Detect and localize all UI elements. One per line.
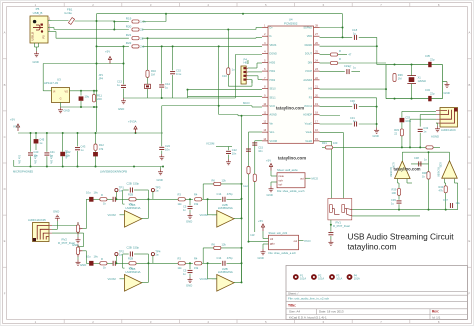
svg-text:VCOM: VCOM: [270, 140, 278, 143]
junction gnd bus tap r1: [133, 166, 135, 168]
wire power rail: [18, 132, 163, 134]
wire pin19 wire: [320, 106, 377, 108]
svg-text:X1: X1: [418, 76, 422, 80]
wire u2b out up: [449, 152, 451, 161]
svg-text:R3: R3: [178, 193, 182, 197]
svg-text:VoutL: VoutL: [306, 131, 313, 134]
ground C24 GND: [159, 154, 164, 160]
svg-text:Sheet: usb_ctrl2: Sheet: usb_ctrl2: [269, 231, 288, 235]
svg-text:VCO: VCO: [270, 105, 275, 108]
svg-text:C43: C43: [81, 145, 86, 149]
ground pot2 GND: [76, 260, 87, 268]
wire D+ wire: [52, 28, 263, 30]
wire main A a: [125, 198, 129, 200]
svg-text:VccpC: VccpC: [305, 122, 313, 125]
resistor R38: [427, 172, 430, 179]
junction out B join: [241, 281, 243, 283]
svg-text:AGND3: AGND3: [303, 79, 312, 82]
svg-text:GND: GND: [80, 263, 86, 267]
junction hp j1: [376, 106, 378, 108]
svg-text:D-: D-: [270, 35, 273, 38]
op-amp U A1: [125, 203, 142, 227]
svg-text:GND: GND: [186, 283, 192, 287]
wire cap2 top lead: [62, 133, 64, 152]
ground stage A GND: [186, 213, 193, 224]
svg-text:RC4580: RC4580: [436, 167, 440, 177]
wire bottom hp rail: [352, 209, 458, 211]
svg-text:VDD: VDD: [307, 35, 312, 38]
svg-text:1u: 1u: [353, 31, 357, 35]
capacitor C28: [328, 233, 333, 235]
junction p11 mid: [241, 198, 243, 200]
svg-text:JP1: JP1: [99, 73, 104, 77]
svg-text:GND: GND: [118, 107, 124, 111]
resonator Y1: [145, 84, 151, 88]
svg-text:C14: C14: [165, 82, 170, 86]
svg-text:HID: HID: [244, 61, 249, 65]
capacitor C42: [60, 152, 65, 156]
wire main B e: [208, 262, 222, 264]
svg-text:101A: 101A: [300, 277, 306, 281]
svg-text:HID2: HID2: [270, 79, 276, 82]
wire main A f: [227, 198, 242, 200]
junction xcol1 top: [123, 45, 125, 47]
test point TP A2: [151, 186, 161, 193]
wire main B f: [227, 262, 242, 264]
junction tpA1 d: [115, 198, 117, 200]
svg-text:R43: R43: [439, 185, 444, 189]
wire cap0 top lead: [30, 133, 32, 152]
capacitor C46: [93, 152, 98, 156]
crystal loop wires: [386, 65, 447, 99]
svg-text:HID0: HID0: [270, 61, 276, 64]
potentiometer RV2B: [76, 245, 82, 257]
svg-text:USB_B: USB_B: [33, 11, 43, 15]
svg-text:+5V: +5V: [258, 219, 263, 223]
wire VDD vertical right: [342, 14, 344, 38]
op-amp U2A: [391, 161, 410, 179]
capacitor C23: [347, 69, 349, 74]
junction pot gnd tap: [330, 224, 332, 226]
svg-text:100: 100: [392, 191, 397, 195]
svg-text:out: out: [294, 240, 298, 243]
svg-text:InR: InR: [251, 233, 255, 237]
junction pullup bottom: [113, 29, 115, 31]
svg-text:C24: C24: [165, 144, 170, 148]
wire sheet2 gnd: [263, 244, 269, 249]
svg-text:HID1: HID1: [270, 70, 276, 73]
junction VDD tap2: [242, 13, 244, 15]
junction sel0 join: [187, 89, 189, 91]
svg-text:DIN: DIN: [308, 61, 313, 64]
junction xl d3: [394, 98, 396, 100]
svg-text:R16: R16: [151, 69, 156, 73]
wire fb B wire: [123, 254, 149, 282]
wire gnd bus left drop: [13, 160, 15, 167]
svg-text:+3V3A: +3V3A: [128, 120, 137, 124]
wire pin17 wire: [320, 123, 377, 125]
wire res col: [147, 38, 149, 70]
wire VBUS row: [97, 45, 262, 47]
junction pullup top: [113, 21, 115, 23]
resistor R chain L: [100, 198, 107, 201]
junction rail tap 0: [30, 132, 32, 134]
svg-text:C: C: [4, 135, 6, 139]
op-amp U B2: [217, 267, 234, 291]
wire r38 down: [428, 179, 430, 210]
junction mco cross: [218, 105, 220, 107]
svg-text:1u: 1u: [165, 85, 168, 89]
wire tpB2 stub: [152, 256, 154, 264]
svg-text:VO: VO: [65, 90, 69, 93]
resistor R B2: [129, 262, 136, 265]
ground sheet2 GND: [258, 249, 266, 260]
svg-text:PCM2902: PCM2902: [284, 21, 298, 25]
wire c24 bot: [161, 151, 163, 154]
svg-text:101A: 101A: [318, 277, 324, 281]
svg-text:VCOM: VCOM: [108, 213, 117, 217]
wire pot1 gnd: [77, 235, 79, 237]
svg-text:2.2: 2.2: [140, 45, 145, 49]
svg-text:VCOM: VCOM: [206, 142, 215, 146]
wire cap2 bottom lead: [62, 156, 64, 166]
svg-text:470p: 470p: [227, 256, 233, 260]
wire ground bus: [14, 166, 163, 168]
svg-text:A: A: [468, 31, 470, 35]
svg-text:LM4562NA: LM4562NA: [126, 206, 141, 210]
svg-text:USB Audio Streaming Circuit: USB Audio Streaming Circuit: [348, 231, 455, 241]
svg-text:12k: 12k: [222, 243, 227, 247]
svg-text:SSPND: SSPND: [303, 27, 312, 30]
resistor R22: [126, 41, 145, 48]
wire VDD vertical left: [96, 14, 98, 21]
wire hid wires: [248, 60, 262, 83]
junction min A d: [207, 198, 209, 200]
svg-text:ferrite: ferrite: [65, 11, 73, 15]
svg-text:R: R: [101, 193, 103, 197]
svg-text:R20: R20: [126, 24, 132, 28]
test point TP A1: [115, 186, 125, 193]
wire main B a: [125, 262, 129, 264]
svg-text:R21: R21: [126, 33, 132, 37]
ground crystal GND: [444, 82, 450, 95]
svg-text:SEL1: SEL1: [270, 96, 277, 99]
junction p11 bot: [241, 262, 243, 264]
wire sheet1 5v: [271, 171, 277, 177]
wire u2a in stubs: [398, 179, 413, 183]
wire U3 gnd rail: [61, 106, 97, 108]
svg-text:FS: FS: [309, 96, 313, 99]
junction obr d1: [401, 146, 403, 148]
wire minus A: [208, 199, 217, 215]
junction gnd bus tap r2: [162, 166, 164, 168]
wire pin16 wire: [320, 133, 344, 199]
wire D- wire: [52, 32, 263, 39]
wire cap col A: [161, 46, 163, 83]
wire pullup drop: [113, 22, 115, 30]
svg-text:10n 16v: 10n 16v: [64, 150, 67, 160]
svg-text:10n: 10n: [165, 148, 170, 152]
svg-text:C14: C14: [217, 192, 222, 196]
junction bhr d3: [445, 209, 447, 211]
wire pin18 wire: [320, 115, 341, 117]
wire main B c: [185, 262, 193, 264]
svg-text:GND: GND: [267, 193, 273, 197]
wire VDD top wire: [97, 13, 343, 15]
wire sheet2 5v: [263, 231, 269, 239]
wire main A e: [208, 198, 222, 200]
svg-text:22: 22: [140, 28, 144, 32]
svg-text:AGNDP: AGNDP: [303, 114, 312, 117]
wire USB pin stubs: [35, 21, 52, 52]
svg-text:out: out: [300, 177, 304, 180]
junction vcc row tap: [96, 106, 98, 108]
junction gnd rail tap2: [93, 106, 95, 108]
wire pin20 wire: [320, 97, 377, 99]
wire out B 2: [234, 281, 242, 283]
svg-text:GND: GND: [186, 219, 192, 223]
dual potentiometer RV1: [328, 198, 352, 220]
wire r39 cap link: [398, 195, 400, 199]
resistor R11: [92, 95, 95, 102]
title block frame: [286, 266, 467, 320]
svg-text:10u: 10u: [85, 95, 90, 99]
junction gc A d: [189, 198, 191, 200]
capacitor C24: [159, 147, 164, 149]
wire pot out rail2: [352, 215, 420, 217]
resistor R36: [393, 74, 396, 82]
svg-text:C10: C10: [222, 74, 227, 78]
wire sheet1 out: [305, 177, 311, 179]
ground pot1 GND: [72, 237, 81, 247]
svg-text:AUDIOJACK35: AUDIOJACK35: [28, 218, 46, 222]
junction c10 top: [227, 29, 229, 31]
svg-text:tataylino.com: tataylino.com: [276, 105, 304, 110]
wire plus A 1: [120, 214, 125, 216]
svg-text:11k: 11k: [178, 266, 183, 270]
wire cap3 bottom lead: [77, 151, 79, 167]
junction rail tap r12: [95, 132, 97, 134]
wire pin24 wire: [320, 62, 387, 64]
resistor R21: [126, 33, 144, 40]
junction sel top: [218, 45, 220, 47]
wire MCO wire: [162, 106, 262, 107]
svg-text:tataylino.com: tataylino.com: [348, 242, 397, 252]
svg-text:R: R: [339, 49, 341, 53]
wire u2a r down: [398, 183, 400, 188]
svg-text:VoutR: VoutR: [305, 140, 312, 143]
svg-text:C: C: [468, 135, 470, 139]
svg-text:100u: 100u: [405, 119, 411, 123]
wire out A 2: [234, 217, 242, 219]
svg-text:16v: 16v: [94, 191, 99, 195]
wire pin12b: [249, 163, 269, 242]
junction U3 out tap1: [80, 90, 82, 92]
junction sheet2 in: [248, 241, 250, 243]
junction gnd bus tap 3: [77, 166, 79, 168]
wire main A d: [202, 198, 208, 200]
svg-text:HS: HS: [309, 88, 313, 91]
svg-text:101A: 101A: [336, 277, 342, 281]
svg-text:11k: 11k: [178, 202, 183, 206]
wire main B d: [202, 262, 208, 264]
svg-text:D: D: [4, 187, 6, 191]
junction fb B d: [147, 262, 149, 264]
wire pot2 wiper wire: [83, 251, 89, 263]
wire chain R 3: [116, 262, 125, 264]
resistor R43: [444, 186, 447, 193]
wire pin23 wire: [320, 71, 361, 73]
wire pullup link: [114, 14, 166, 22]
wire pin28 wire: [320, 27, 343, 29]
resistor R32: [426, 146, 433, 149]
capacitor C gnd A: [188, 206, 193, 208]
svg-text:C2B: C2B: [127, 181, 132, 185]
junction hp rail tap: [428, 151, 430, 153]
junction min B d: [207, 262, 209, 264]
wire hp pin1 wire: [402, 111, 436, 117]
wire minus B: [208, 263, 217, 279]
IC U4 PCM2902: [262, 25, 320, 144]
svg-text:Id: 1/1: Id: 1/1: [432, 315, 441, 319]
svg-text:B: B: [468, 83, 470, 87]
resistor R16: [146, 70, 149, 77]
power +5V arrow: [10, 118, 20, 132]
junction obr d3: [419, 146, 421, 148]
capacitor C32: [418, 129, 423, 131]
svg-text:MCO: MCO: [312, 177, 319, 181]
junction colB top: [172, 45, 174, 47]
svg-text:GND: GND: [373, 134, 379, 138]
wire c10 bot: [228, 75, 252, 87]
capacitor C chain L: [113, 197, 115, 202]
svg-text:R12: R12: [99, 143, 104, 147]
ground U3 GND: [58, 107, 70, 113]
svg-text:R4: R4: [194, 193, 198, 197]
wire main B b: [136, 262, 178, 264]
capacitor C18: [354, 35, 356, 40]
svg-text:vol-: vol-: [279, 184, 283, 187]
svg-text:C5: C5: [183, 268, 187, 272]
wire pin8 wire: [188, 89, 263, 91]
svg-text:VCCP: VCCP: [305, 70, 312, 73]
capacitor C34: [428, 96, 431, 101]
wire c39 down: [398, 204, 400, 209]
svg-text:VCOM: VCOM: [200, 213, 209, 217]
svg-text:D+: D+: [270, 27, 274, 30]
svg-text:AUDIOJACK: AUDIOJACK: [441, 128, 456, 132]
wire jack gnd wire: [52, 221, 57, 229]
svg-text:10u: 10u: [86, 255, 91, 259]
capacitor C43: [75, 148, 80, 150]
svg-text:R38: R38: [422, 171, 427, 175]
junction VDD left: [96, 20, 98, 22]
capacitor C fb B: [130, 252, 132, 257]
ground C22 GND: [226, 159, 231, 165]
svg-text:VCOM: VCOM: [200, 277, 209, 281]
svg-text:PCO: PCO: [305, 239, 312, 243]
wire xtal col 1: [123, 46, 125, 84]
resistor R fb2 B: [214, 246, 221, 249]
junction rail tap 1: [46, 132, 48, 134]
svg-text:R6: R6: [212, 179, 216, 183]
junction rail tap vcc: [135, 132, 137, 134]
power +3V3A arrow: [128, 120, 137, 134]
resistor R33: [400, 129, 403, 136]
mount hole donut 1: [293, 273, 306, 280]
svg-text:C37: C37: [443, 198, 448, 202]
wire r43 down: [445, 193, 447, 210]
svg-text:C41: C41: [50, 150, 55, 154]
svg-text:22: 22: [140, 36, 144, 40]
resistor R14: [253, 174, 256, 181]
svg-text:GND: GND: [258, 256, 264, 260]
junction bhr d2: [428, 209, 430, 211]
svg-text:GND: GND: [157, 178, 163, 182]
svg-text:C45: C45: [39, 137, 44, 141]
svg-text:tataylino.com: tataylino.com: [394, 167, 421, 172]
junction rail tap 3: [77, 132, 79, 134]
junction xl d4: [411, 98, 413, 100]
wire gc A v2: [189, 210, 191, 213]
svg-text:A: A: [4, 31, 6, 35]
svg-text:GND: GND: [33, 60, 39, 64]
svg-text:Sheet: /: Sheet: /: [288, 291, 299, 295]
svg-text:AP1117-33: AP1117-33: [44, 81, 58, 85]
svg-text:C35: C35: [425, 54, 430, 58]
svg-text:10u: 10u: [86, 191, 91, 195]
svg-text:12MHz: 12MHz: [418, 79, 427, 83]
capacitor C38: [419, 161, 421, 166]
mount hole donut 3: [329, 273, 342, 280]
svg-text:10n 16v: 10n 16v: [17, 155, 20, 165]
wire jack l wire: [52, 222, 78, 225]
wire plus A 2: [212, 214, 217, 216]
wire u2a in join: [398, 182, 400, 184]
svg-text:C15: C15: [176, 69, 181, 73]
svg-text:1u: 1u: [117, 83, 120, 87]
svg-text:C38: C38: [414, 156, 419, 160]
wire cap1 bottom lead: [46, 156, 48, 166]
junction pin26 join: [376, 45, 378, 47]
resistor R B3: [178, 262, 185, 265]
svg-text:16v: 16v: [94, 255, 99, 259]
svg-text:GND: GND: [64, 109, 70, 113]
svg-text:VI: VI: [53, 90, 56, 93]
wire cap1 top lead: [46, 133, 48, 152]
capacitor C15: [246, 149, 251, 151]
svg-text:Title:: Title:: [288, 303, 296, 307]
svg-text:Date: 18 nov 2013: Date: 18 nov 2013: [319, 309, 344, 313]
junction fb2 B top: [241, 247, 243, 249]
svg-text:Sheet: asdf_asdw: Sheet: asdf_asdw: [277, 168, 298, 172]
wire c22 bot: [228, 155, 230, 159]
wire sheet1 gnd: [271, 182, 277, 186]
svg-text:USB_B: USB_B: [30, 32, 34, 41]
svg-text:1a: 1a: [119, 253, 123, 257]
capacitor C chain R: [113, 261, 115, 266]
svg-text:47k: 47k: [439, 189, 444, 193]
wire cap col B: [172, 46, 174, 70]
junction U3 out tap2: [93, 90, 95, 92]
junction VDD mid tap: [165, 13, 167, 15]
svg-text:GND: GND: [53, 210, 59, 214]
svg-text:C14: C14: [217, 256, 222, 260]
svg-text:R31: R31: [322, 141, 327, 145]
junction colA top: [161, 45, 163, 47]
svg-text:ctrl: ctrl: [270, 238, 274, 241]
svg-text:R22: R22: [126, 41, 132, 45]
